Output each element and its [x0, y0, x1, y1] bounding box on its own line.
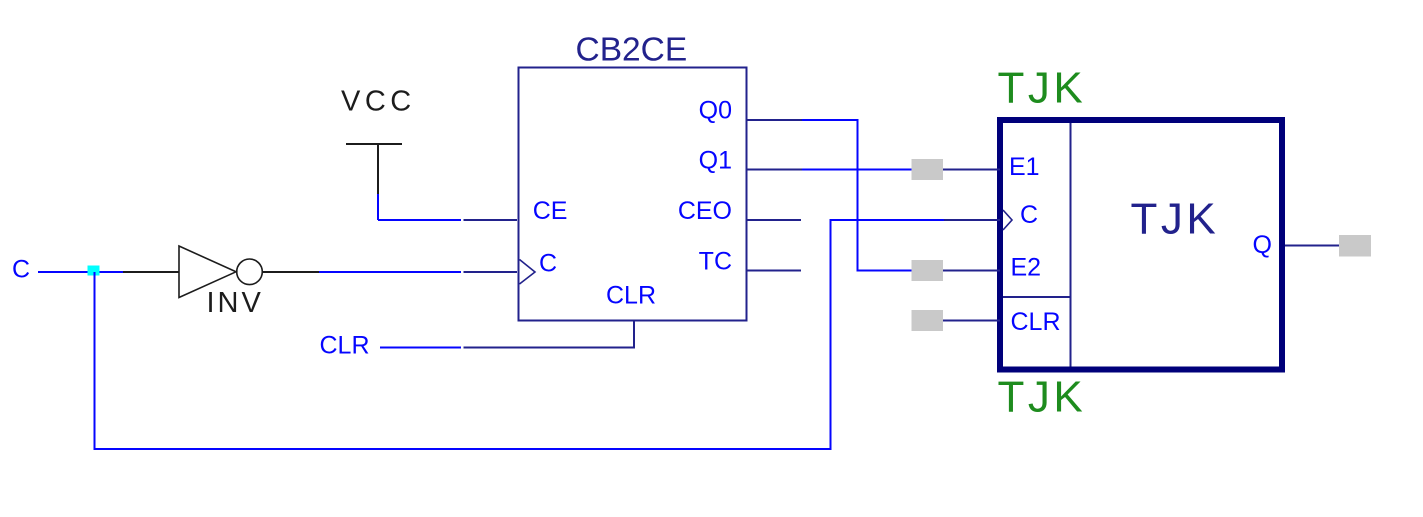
pin lead Q	[1285, 245, 1339, 247]
pad on E2 net	[912, 260, 944, 281]
flip-flop X1 TJK body (thick border)	[1000, 120, 1282, 370]
svg-text:Q1: Q1	[699, 147, 732, 175]
svg-text:TJK: TJK	[998, 64, 1087, 113]
power symbol VCC	[346, 144, 402, 194]
svg-text:E1: E1	[1009, 153, 1040, 181]
pin lead C (TJK)	[944, 219, 1000, 221]
pin lead E1	[943, 169, 1000, 171]
svg-text:C: C	[539, 250, 557, 278]
pad on CLR pin (unconnected)	[912, 310, 944, 331]
pin lead CLR (TJK)	[943, 320, 1000, 322]
svg-text:Q0: Q0	[699, 97, 732, 125]
svg-text:C: C	[12, 256, 30, 284]
pin lead C with clock wedge	[464, 271, 518, 273]
counter U2 CB2CE body	[519, 68, 747, 321]
clock wedge on CB2CE C pin	[520, 260, 536, 285]
svg-text:E2: E2	[1011, 254, 1042, 282]
wire feedback net: junction down, across bottom, up to TJK C pin	[95, 220, 945, 449]
wire net C from label to junction and inverter input	[38, 271, 123, 273]
wire net Q0 to TJK E2 pad	[802, 120, 912, 271]
svg-text:CEO: CEO	[678, 197, 732, 225]
pin lead CEO	[746, 219, 801, 221]
svg-text:TJK: TJK	[1131, 195, 1220, 244]
svg-text:VCC: VCC	[341, 86, 416, 118]
pin lead TC	[746, 270, 801, 272]
svg-text:INV: INV	[207, 287, 264, 319]
pin lead E2	[943, 270, 1000, 272]
svg-text:Q: Q	[1253, 231, 1272, 259]
TJK inner pin column divider	[1070, 123, 1072, 367]
svg-text:CLR: CLR	[320, 332, 370, 360]
inverter U1 input stub	[123, 271, 179, 273]
svg-text:C: C	[1020, 201, 1038, 229]
svg-text:CLR: CLR	[1011, 308, 1061, 336]
clock wedge on TJK C pin	[1003, 210, 1012, 230]
wire net from inverter output to CB2CE C pin	[319, 271, 461, 273]
svg-text:TC: TC	[699, 248, 732, 276]
svg-text:CE: CE	[533, 197, 568, 225]
TJK CLR section separator	[1003, 296, 1071, 298]
pin lead Q0	[746, 119, 802, 121]
svg-text:TJK: TJK	[998, 373, 1087, 422]
wire net VCC to CB2CE CE pin	[378, 194, 461, 220]
inverter U1 output bubble	[237, 259, 263, 285]
wire net CLR	[380, 347, 461, 349]
inverter U1 triangle	[179, 246, 236, 298]
wire net Q1 to TJK E1 pad	[802, 169, 912, 171]
svg-text:CLR: CLR	[606, 282, 656, 310]
pad on Q output net	[1339, 235, 1371, 257]
junction on net C	[88, 266, 100, 276]
inverter U1 output stub	[263, 271, 320, 273]
pin lead Q1	[746, 169, 802, 171]
pin lead CE	[464, 219, 518, 221]
svg-text:CB2CE: CB2CE	[576, 32, 688, 69]
pad on E1 net	[912, 159, 944, 180]
pin lead CLR bottom	[464, 321, 635, 348]
